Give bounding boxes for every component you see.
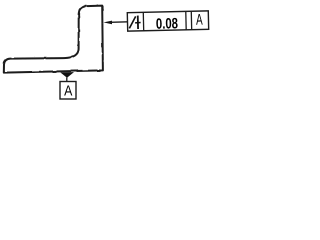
tolerance symbol stroke: horizontal tick (135, 22, 141, 24)
tolerance symbol stroke: vertical (137, 16, 139, 29)
divider 1 (142, 12, 144, 30)
divider 2 (185, 11, 187, 29)
svg-text:A: A (196, 10, 203, 28)
feature control frame (127, 10, 208, 33)
datum reference letter A (196, 10, 203, 28)
datum feature triangle (60, 72, 74, 78)
leader wire (110, 21, 128, 24)
tolerance symbol stroke: diagonal (129, 16, 136, 28)
svg-text:A: A (64, 82, 72, 98)
part outline (L-shaped bracket) (4, 6, 103, 73)
tolerance value 0.08 (156, 15, 178, 32)
divider 3 (datum box left) (190, 11, 192, 29)
frame box (127, 11, 208, 31)
datum leader stem (66, 78, 68, 82)
svg-text:0.08: 0.08 (156, 15, 178, 32)
datum box (60, 82, 76, 100)
leader arrowhead (104, 21, 113, 25)
datum letter A (64, 82, 72, 98)
